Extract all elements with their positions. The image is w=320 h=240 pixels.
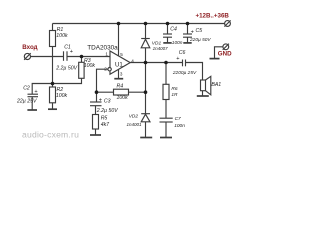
svg-text:+12В..+36В: +12В..+36В — [196, 12, 230, 19]
capacitor C1 — [63, 51, 65, 61]
resistor R5 — [93, 115, 99, 130]
svg-text:5: 5 — [120, 52, 123, 57]
svg-text:BA1: BA1 — [211, 82, 221, 88]
op-amp inverting bubble — [108, 68, 111, 71]
resistor R2 — [50, 87, 56, 103]
svg-text:TDA2030a: TDA2030a — [87, 44, 118, 51]
node dot R2/bias — [51, 82, 55, 86]
svg-text:100n: 100n — [174, 123, 185, 129]
svg-text:4k7: 4k7 — [101, 122, 110, 128]
node dot C4/rail — [166, 22, 170, 26]
speaker BA1 — [201, 80, 206, 91]
svg-text:1n4001: 1n4001 — [127, 122, 143, 127]
svg-text:C2: C2 — [23, 86, 30, 92]
wire R1 top stub — [52, 24, 54, 31]
svg-text:3: 3 — [120, 71, 123, 76]
op-amp U1 — [110, 51, 130, 74]
svg-text:1R: 1R — [171, 92, 178, 98]
svg-text:C3: C3 — [104, 99, 111, 105]
svg-text:U1: U1 — [115, 61, 123, 68]
wire C1 to op-amp pin1 — [67, 56, 110, 58]
svg-text:1n4007: 1n4007 — [153, 46, 169, 51]
ground VD2 — [140, 137, 152, 139]
capacitor C2 — [28, 93, 39, 95]
svg-text:+: + — [176, 56, 179, 62]
node dot R4/diode column — [144, 90, 148, 94]
node dot output/R6 — [164, 61, 168, 65]
svg-text:100n: 100n — [172, 40, 183, 46]
node dot output/diodes — [144, 61, 148, 65]
wire output — [130, 62, 182, 64]
ground C5 — [183, 42, 191, 44]
ground speaker — [197, 95, 209, 97]
svg-text:100k: 100k — [56, 33, 68, 39]
svg-text:4: 4 — [131, 58, 134, 63]
node dot C5/rail — [186, 22, 190, 26]
node dot pin5/rail — [117, 22, 121, 26]
capacitor C3 — [90, 101, 102, 103]
resistor R4 — [114, 89, 129, 95]
ground C7 — [160, 137, 172, 139]
node dot pin2/R4 — [95, 90, 99, 94]
node dot VD1/rail — [144, 22, 148, 26]
svg-text:100k: 100k — [117, 95, 129, 101]
svg-text:2.2µ 50V: 2.2µ 50V — [96, 108, 118, 114]
wire diode column mid — [145, 63, 147, 114]
terminal GND — [223, 44, 229, 50]
resistor R6 — [163, 84, 169, 99]
svg-text:+: + — [191, 29, 194, 35]
wire pin5 supply — [118, 24, 120, 57]
svg-text:VD2: VD2 — [129, 114, 139, 120]
terminal input — [24, 53, 30, 59]
wire R1 bottom to bias node (crosses input wire) — [52, 47, 54, 84]
svg-text:GND: GND — [218, 50, 232, 57]
resistor R3 — [81, 57, 83, 63]
wire R4 left — [97, 91, 114, 93]
node dot R3/input — [80, 55, 84, 59]
wire C6 to speaker — [186, 63, 203, 81]
svg-text:Вход: Вход — [22, 44, 37, 51]
svg-text:R6: R6 — [171, 86, 177, 92]
svg-text:2200µ 25V: 2200µ 25V — [172, 70, 197, 76]
wire diode column top — [145, 24, 147, 39]
svg-text:1: 1 — [105, 52, 108, 57]
wire input — [30, 56, 63, 58]
svg-text:C4: C4 — [170, 26, 177, 32]
wire pin3 ground — [118, 70, 120, 79]
svg-text:R5: R5 — [101, 116, 108, 122]
ground C2 — [27, 109, 37, 111]
diode VD1 — [141, 38, 150, 40]
wire bias rail — [32, 78, 81, 94]
svg-text:+: + — [34, 89, 37, 95]
wire top supply rail — [53, 23, 225, 25]
svg-text:C6: C6 — [179, 50, 186, 56]
svg-text:+: + — [99, 98, 102, 104]
ground C4 — [163, 42, 171, 44]
svg-text:2: 2 — [104, 66, 107, 71]
svg-text:220µ 50V: 220µ 50V — [189, 37, 211, 43]
capacitor C6 — [182, 60, 184, 67]
wire R4 right — [129, 91, 146, 93]
terminal +V — [225, 21, 231, 27]
resistor R1 — [50, 31, 56, 47]
svg-text:22µ 25V: 22µ 25V — [16, 98, 37, 104]
capacitor C4 — [167, 24, 169, 34]
svg-text:C7: C7 — [175, 116, 181, 122]
ground GND terminal — [210, 58, 220, 60]
diode VD2 — [141, 113, 150, 115]
wire R2 stub — [52, 84, 54, 88]
ground R2 — [48, 108, 57, 110]
svg-text:+: + — [70, 49, 73, 55]
wire pin2 feedback — [97, 69, 108, 102]
wire GND terminal — [215, 47, 223, 58]
capacitor C7 — [160, 117, 173, 119]
svg-text:100k: 100k — [56, 93, 68, 99]
svg-text:2.2µ 50V: 2.2µ 50V — [55, 66, 77, 72]
svg-text:C5: C5 — [196, 28, 203, 34]
capacitor C5 — [187, 24, 189, 34]
svg-text:audio-cxem.ru: audio-cxem.ru — [22, 129, 79, 139]
ground R5 — [90, 134, 101, 136]
svg-text:R4: R4 — [117, 83, 124, 89]
svg-text:100k: 100k — [84, 63, 96, 69]
wire R6 column — [165, 63, 167, 85]
